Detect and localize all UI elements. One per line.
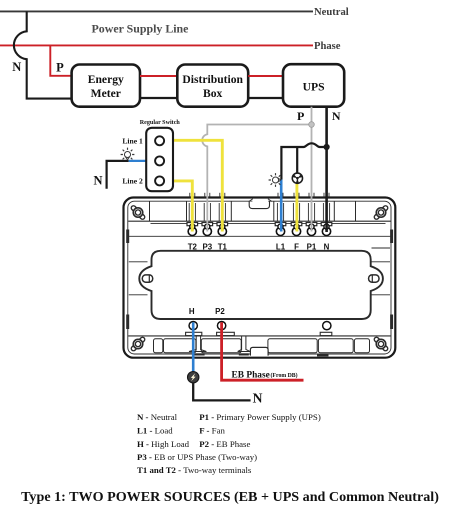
svg-text:P3: P3: [202, 242, 212, 251]
wire: red EB phase into P2: [222, 322, 304, 380]
svg-text:P3 - EB or UPS Phase (Two-way): P3 - EB or UPS Phase (Two-way): [137, 452, 257, 462]
wire: neutral drop from rail to Energy Meter (hop over phase): [14, 11, 72, 98]
svg-text:Phase: Phase: [314, 41, 341, 52]
terminal L1: [276, 224, 284, 236]
plate side slot (right lower): [390, 315, 393, 330]
wire: Phase supply rail: [0, 44, 313, 46]
svg-text:T1 and T2 - Two-way terminals: T1 and T2 - Two-way terminals: [137, 465, 252, 475]
terminal P3: [203, 224, 211, 236]
svg-text:L1 - Load: L1 - Load: [137, 425, 173, 435]
plate side slot (left upper): [126, 230, 129, 244]
support pillars in bottom band: [189, 336, 250, 352]
svg-text:EB Phase: EB Phase: [232, 370, 270, 380]
wire: phase tap to Energy Meter: [50, 45, 71, 75]
wall plate outer frame: [124, 198, 396, 358]
wire: yellow Line 1 to T1 (hop over gray): [164, 140, 222, 231]
switch terminal common: [155, 156, 164, 165]
svg-text:P1: P1: [307, 242, 317, 251]
svg-text:Energy: Energy: [88, 73, 124, 86]
high load connector (lightning): [188, 372, 199, 383]
plate side slot (left lower): [126, 315, 129, 330]
svg-text:P1 - Primary Power Supply (UPS: P1 - Primary Power Supply (UPS): [199, 412, 321, 422]
switch terminal Line 2: [155, 176, 164, 185]
screw top-right: [372, 203, 391, 222]
plate top band lines: [128, 201, 390, 236]
wire: black UPS N to N terminal: [325, 107, 328, 232]
svg-text:T2: T2: [188, 242, 198, 251]
wire: yellow fan to F: [295, 184, 298, 232]
bottom band cells: [154, 339, 370, 353]
svg-text:Line 2: Line 2: [122, 176, 143, 185]
box: Distribution Box: [177, 65, 248, 107]
wire: neutral link Energy Meter to Distribution Box: [140, 97, 177, 99]
svg-text:N: N: [12, 60, 21, 74]
dark pads at bottom edge: [192, 353, 205, 355]
terminal F: [292, 224, 300, 236]
lamp icon at regular switch: [121, 148, 135, 160]
terminal T2: [188, 224, 196, 236]
terminal entry bars: [187, 223, 332, 226]
left side screw slot: [142, 275, 152, 282]
terminal unlabeled: [323, 321, 331, 329]
wire: yellow Line 2 to T2: [164, 181, 192, 232]
svg-text:L1: L1: [276, 242, 286, 251]
bottom-center mounting tab: [250, 347, 268, 355]
plate side slot (right upper): [390, 230, 393, 244]
top-center mounting tab: [252, 200, 268, 203]
junction: black dot: [324, 144, 330, 150]
svg-text:Regular Switch: Regular Switch: [140, 120, 181, 126]
wire: blue lamp junction to switch common: [129, 160, 156, 162]
wire: black high-load neutral return: [193, 383, 250, 401]
wire: black neutral stub to lamp junction: [107, 161, 129, 189]
terminal T1: [218, 224, 226, 236]
terminal N: [322, 224, 330, 236]
svg-text:N: N: [332, 109, 341, 123]
plate central opening: [139, 251, 383, 319]
svg-text:N: N: [93, 173, 102, 187]
svg-text:Line 1: Line 1: [122, 136, 143, 145]
plate bottom band: [128, 335, 390, 337]
svg-text:T1: T1: [218, 242, 228, 251]
svg-text:Meter: Meter: [91, 87, 121, 100]
terminal H: [189, 321, 197, 329]
svg-text:(From DB): (From DB): [271, 372, 298, 379]
svg-text:N: N: [253, 391, 263, 406]
svg-text:N: N: [324, 242, 330, 251]
wire: blue lamp to L1: [280, 180, 283, 232]
plate mid-zone ribs: [129, 248, 390, 295]
regular switch body: [146, 128, 173, 191]
terminal P2: [217, 321, 225, 329]
wire: black branch to lamp and fan (hop over gray): [281, 143, 326, 180]
svg-text:Box: Box: [203, 87, 223, 100]
svg-text:F: F: [294, 242, 299, 251]
wire entry channels in top band: [189, 193, 329, 221]
svg-text:UPS: UPS: [303, 80, 325, 93]
lamp icon load lamp: [269, 173, 281, 187]
svg-text:P: P: [297, 109, 304, 123]
svg-text:Power Supply Line: Power Supply Line: [92, 21, 189, 35]
right side screw slot: [369, 275, 379, 282]
svg-text:Type 1: TWO POWER SOURCES (EB: Type 1: TWO POWER SOURCES (EB + UPS and …: [21, 489, 439, 505]
svg-text:F - Fan: F - Fan: [199, 425, 225, 435]
svg-text:N - Neutral: N - Neutral: [137, 412, 178, 422]
screw bottom-right: [372, 335, 391, 354]
junction: gray dot: [309, 122, 315, 128]
svg-text:H: H: [189, 307, 195, 316]
svg-text:P2 - EB Phase: P2 - EB Phase: [199, 439, 250, 449]
wire: phase link Distribution Box to UPS: [248, 75, 283, 77]
svg-text:P: P: [56, 60, 64, 74]
screw bottom-left: [129, 335, 148, 354]
box: UPS: [283, 64, 344, 107]
svg-text:P2: P2: [215, 307, 225, 316]
wire: neutral link Distribution Box to UPS: [248, 97, 283, 99]
wire: phase link Energy Meter to Distribution Box: [140, 75, 177, 77]
svg-text:Distribution: Distribution: [182, 73, 243, 86]
box: Energy Meter: [72, 65, 140, 107]
wire: gray UPS P to P3 and P1: [202, 107, 311, 232]
switch terminal Line 1: [155, 136, 164, 145]
wire: Neutral supply rail: [0, 10, 313, 12]
svg-text:Neutral: Neutral: [314, 7, 349, 18]
terminal P1: [307, 224, 315, 236]
wire: blue H to high load point: [192, 322, 195, 371]
screw top-left: [129, 203, 148, 222]
svg-text:H - High Load: H - High Load: [137, 439, 190, 449]
hat tabs under bottom circles: [186, 332, 332, 335]
fan icon: [292, 172, 304, 184]
